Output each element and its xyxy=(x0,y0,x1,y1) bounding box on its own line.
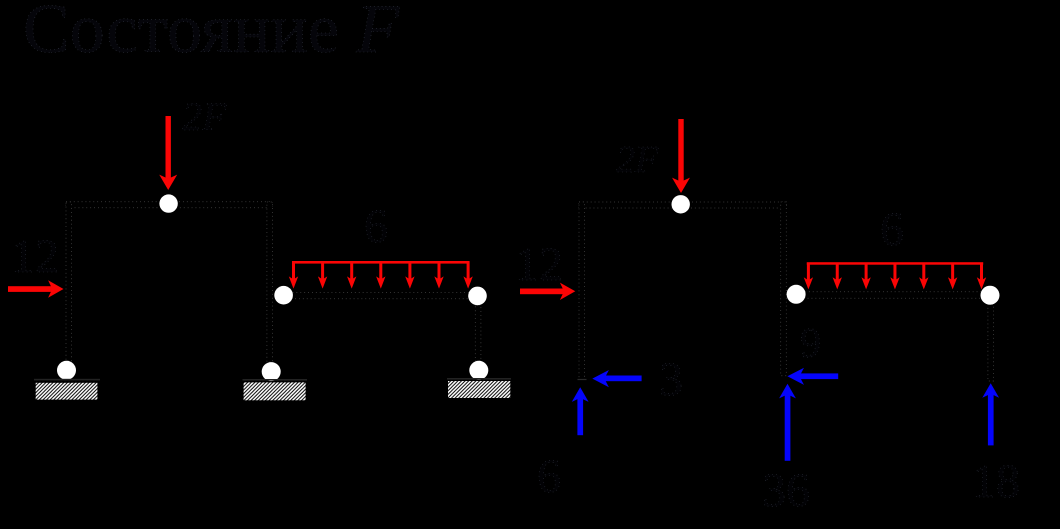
label 18 xyxy=(972,455,1020,508)
distributed load bar (right) xyxy=(807,262,983,265)
frame member: left lower right column xyxy=(475,305,481,361)
column base tick (right portal left column) xyxy=(578,379,587,380)
reaction arrow 9 (blue, left, at middle column) xyxy=(787,368,838,385)
support 3: hatched base xyxy=(448,381,510,398)
force arrow 2F (right, vertical red) xyxy=(672,119,690,193)
reaction arrow 6 (blue, up, left column) xyxy=(572,387,589,435)
hinge circle: left lower beam left end xyxy=(274,286,293,305)
support 2: hatched base xyxy=(244,382,306,400)
svg-text:9: 9 xyxy=(800,321,821,367)
support 1: hatched base xyxy=(36,383,98,400)
svg-text:6: 6 xyxy=(364,200,388,253)
svg-text:6: 6 xyxy=(537,450,561,503)
label 12 (right) xyxy=(515,238,563,291)
distributed load arrows (left) xyxy=(289,262,473,289)
reaction arrow 18 (blue, up, right column) xyxy=(982,383,999,445)
label 6 (reaction, bottom left) xyxy=(537,450,561,503)
frame member: right lower right column xyxy=(988,305,994,382)
svg-text:18: 18 xyxy=(972,455,1020,508)
frame member: left portal top beam xyxy=(66,202,273,208)
svg-text:6: 6 xyxy=(880,203,904,256)
hinge circle: right lower beam left end xyxy=(787,285,806,304)
frame member: left lower beam xyxy=(293,292,469,298)
force arrow 2F (left, vertical red) xyxy=(159,116,177,190)
frame member: right portal left column xyxy=(579,202,585,380)
support 3: ground line xyxy=(447,378,511,380)
hinge circle: right lower beam right end xyxy=(981,286,1000,305)
svg-text:36: 36 xyxy=(762,464,810,517)
label 36 xyxy=(762,464,810,517)
support 2: ground line xyxy=(243,379,308,381)
svg-text:2F: 2F xyxy=(182,94,227,139)
svg-text:Состояние F: Состояние F xyxy=(23,0,401,68)
support 2: roller circle xyxy=(262,362,281,381)
hinge circle: left apex xyxy=(159,194,177,212)
frame member: left portal left column xyxy=(66,202,72,361)
support 3: roller circle xyxy=(469,361,488,380)
force arrow 12 (left, horizontal red) xyxy=(8,280,64,297)
label 9 xyxy=(800,321,821,367)
support 1: ground line xyxy=(34,379,100,381)
svg-text:12: 12 xyxy=(515,238,563,291)
force arrow 12 (right, horizontal red) xyxy=(520,283,575,300)
label 2F (left) xyxy=(182,94,227,139)
hinge circle: left lower beam right end xyxy=(468,287,487,306)
label 2F (right) xyxy=(616,139,659,181)
label 6 (right load) xyxy=(880,203,904,256)
distributed load arrows (right) xyxy=(804,263,987,290)
svg-text:12: 12 xyxy=(11,230,59,283)
title: Состояние F xyxy=(23,0,401,68)
label 12 (left) xyxy=(11,230,59,283)
reaction arrow 36 (blue, up, middle column) xyxy=(779,384,796,461)
svg-text:2F: 2F xyxy=(616,139,659,181)
label 3 xyxy=(659,353,683,406)
frame member: right portal middle column xyxy=(781,202,787,376)
label 6 (left load) xyxy=(364,200,388,253)
hinge circle: right apex xyxy=(672,195,690,213)
frame member: right portal top beam xyxy=(579,202,787,208)
reaction arrow 3 (blue, left, at left column base) xyxy=(592,370,641,387)
frame member: right lower beam xyxy=(805,292,981,298)
distributed load bar (left) xyxy=(292,261,470,264)
frame member: left portal right column xyxy=(267,202,273,362)
svg-text:3: 3 xyxy=(659,353,683,406)
support 1: roller circle xyxy=(57,361,76,380)
